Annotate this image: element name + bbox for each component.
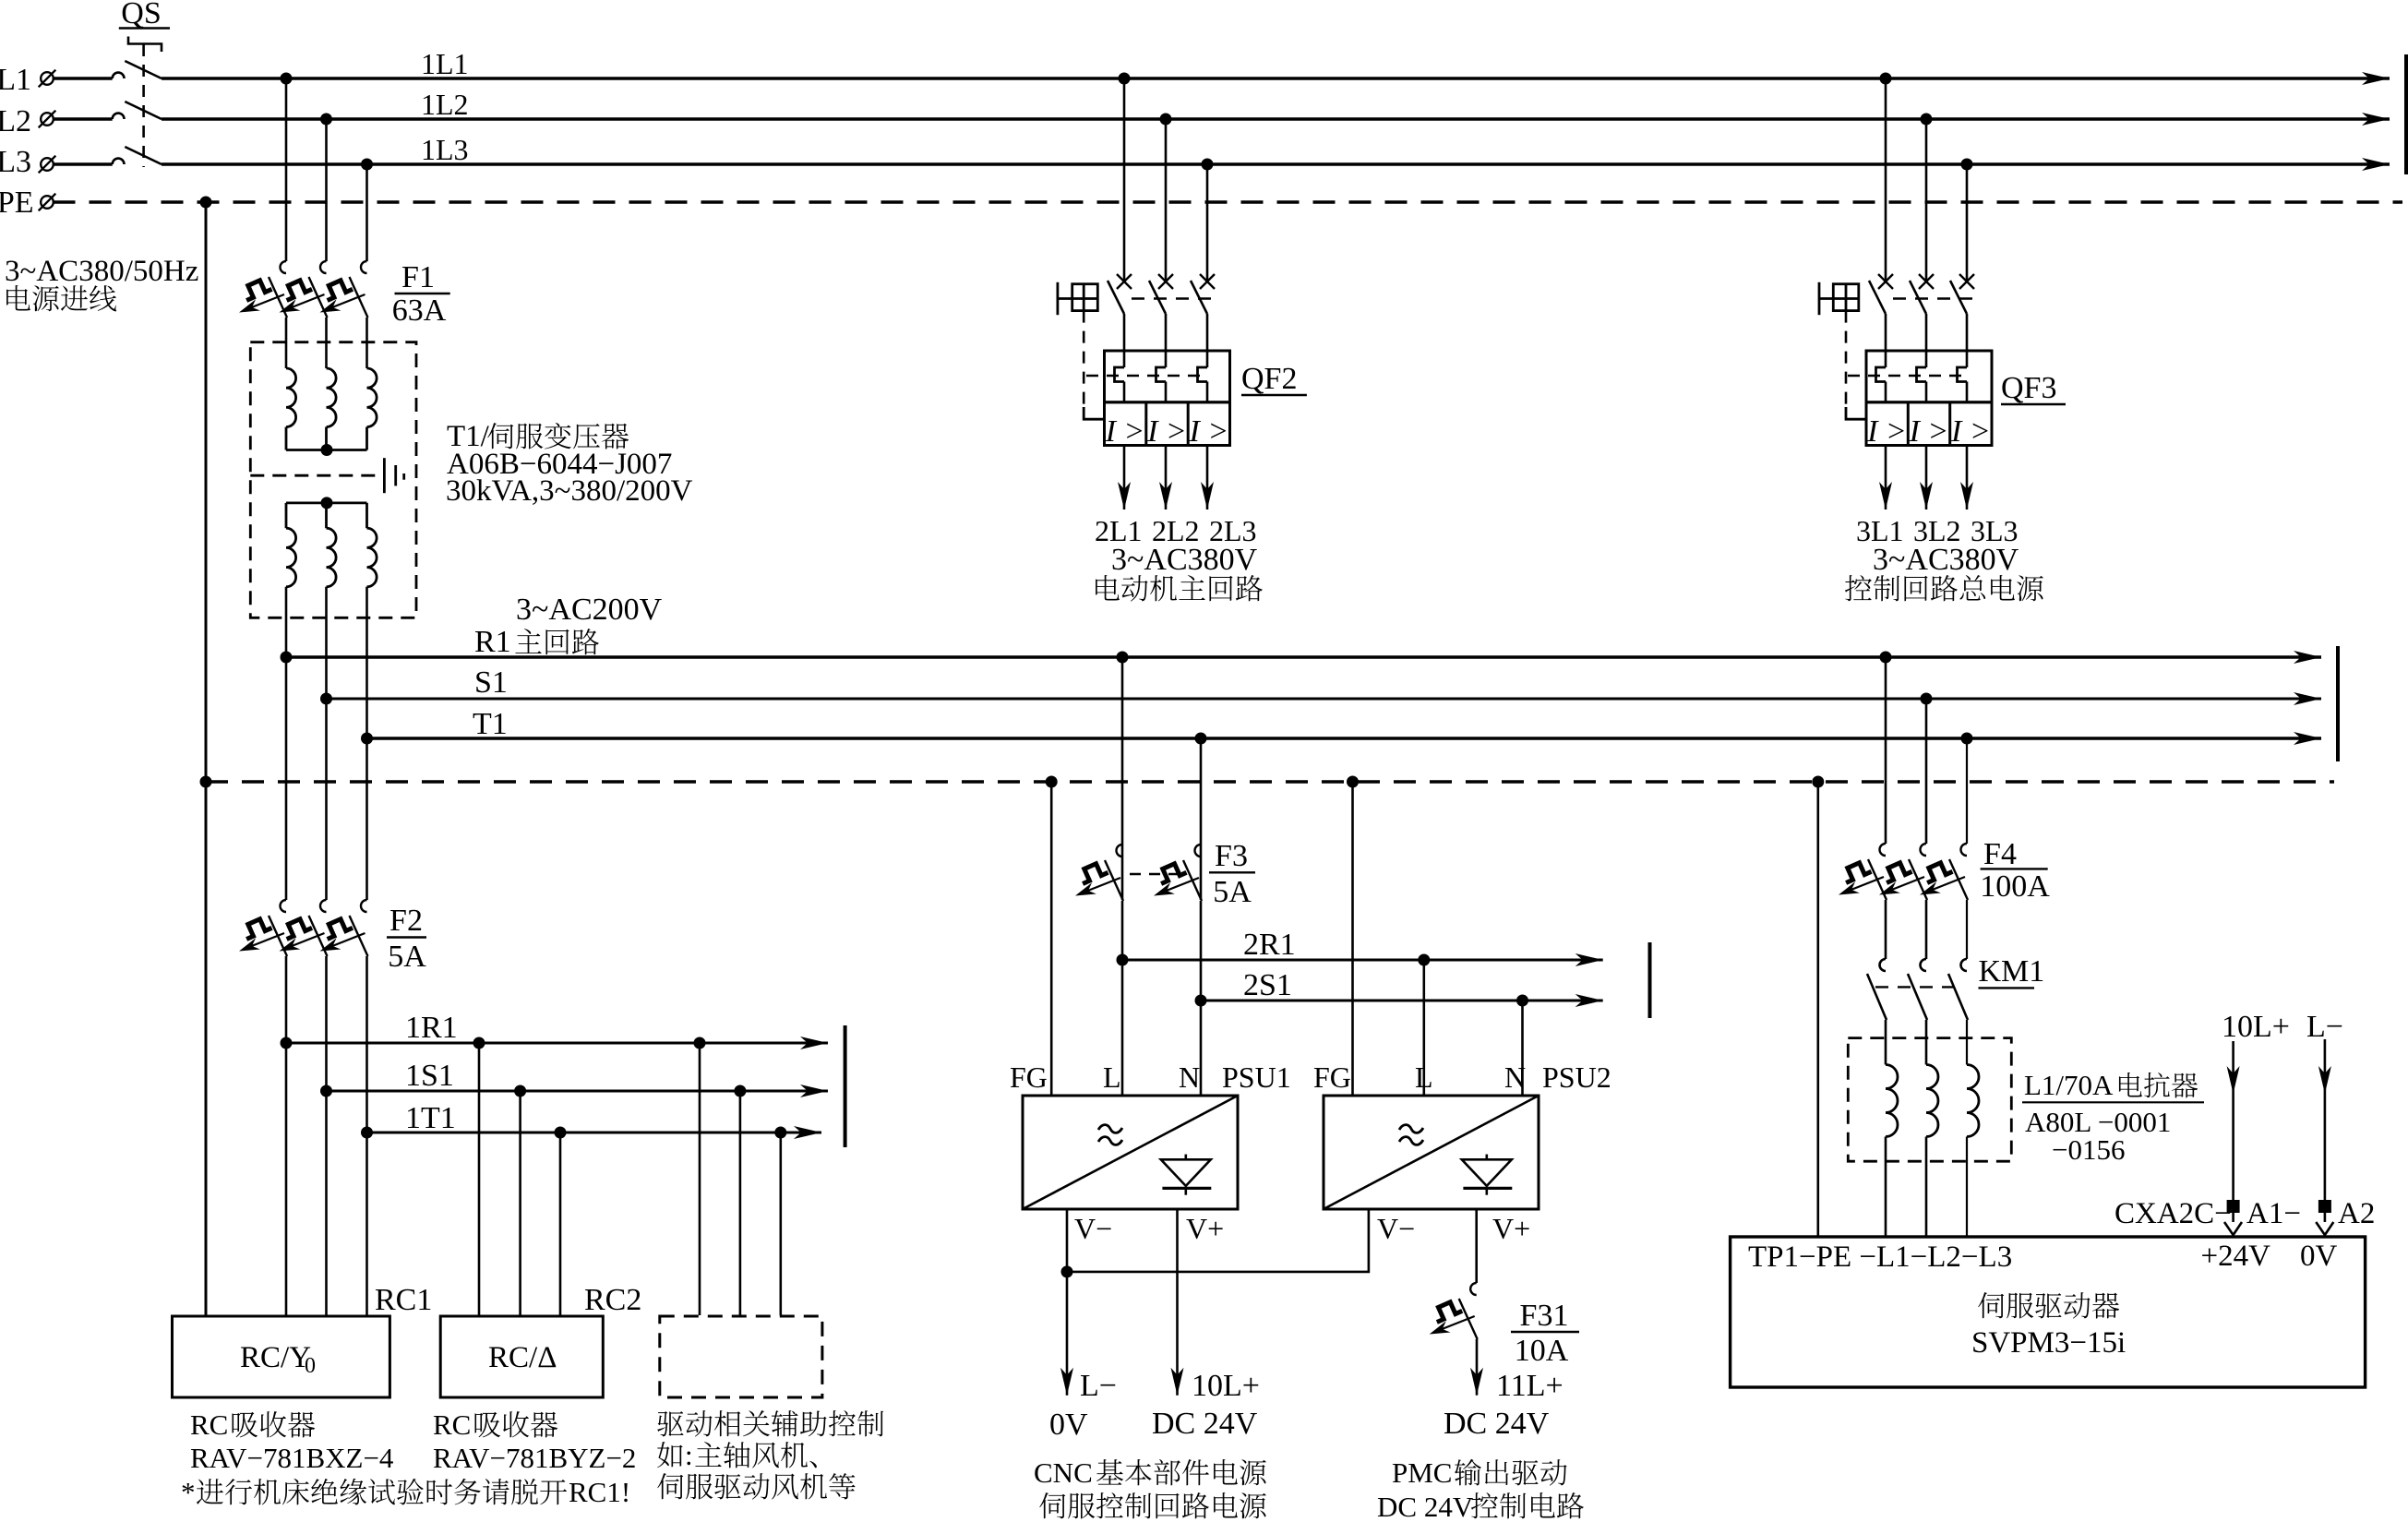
svg-text:DC 24V: DC 24V (1377, 1491, 1474, 1522)
wire L2 to QF2 (1165, 119, 1168, 282)
svg-text:V−: V− (1377, 1212, 1415, 1245)
wire PSU1 V+ output (1176, 1209, 1179, 1396)
node L3/QF3 (1961, 159, 1973, 171)
KM1 linkage (dashed) (1875, 986, 1957, 988)
svg-text:+24V: +24V (2201, 1240, 2271, 1273)
wire L3 to F1 (365, 164, 368, 261)
svg-text:1L2: 1L2 (421, 88, 469, 121)
breaker F3 pole 1 (1075, 845, 1123, 901)
svg-text:F3: F3 (1215, 839, 1248, 873)
arrowheads L1 L2 L3 right ends (2362, 72, 2390, 85)
circuit breaker QF2 pole 3 (1191, 274, 1215, 314)
QF3 box (1866, 351, 1992, 402)
svg-text:RC/Y: RC/Y (240, 1341, 311, 1374)
breaker F4 pole 3 (1920, 844, 1968, 900)
svg-text:FG: FG (1313, 1061, 1351, 1094)
wire S1 bus (327, 698, 2322, 701)
wire QF3 outputs w/ arrows (1885, 446, 1887, 510)
PSU2 diode symbol (1462, 1155, 1513, 1195)
circuit breaker QF3 pole 2 (1910, 274, 1934, 314)
svg-text:3~AC200V: 3~AC200V (516, 593, 663, 627)
wire PSU1 FG (1050, 782, 1053, 1096)
terminal L2 (39, 111, 56, 128)
node V- common (1061, 1265, 1073, 1277)
node PE vertical (200, 197, 212, 209)
svg-text:DC 24V: DC 24V (1444, 1407, 1550, 1441)
breaker F2 pole 1 (239, 900, 287, 956)
QF2 release linkage (dashed) (1086, 375, 1200, 377)
QF3 trip linkage (dashed) (1845, 311, 1848, 407)
node 1S1/RC2 (514, 1085, 526, 1097)
svg-text:SVPM3−15i: SVPM3−15i (1971, 1326, 2126, 1360)
node S1/F4 (1921, 693, 1933, 705)
contactor KM1 pole 2 (1908, 959, 1927, 1020)
T1 secondary star bar (286, 502, 367, 505)
T1 primary winding 3 (367, 368, 377, 427)
wire servo PE drop (1817, 782, 1820, 1237)
circuit breaker QF3 pole 3 (1950, 274, 1974, 314)
node L1/QF2 (1119, 73, 1131, 85)
RC absorber RC/Y0 box (173, 1316, 390, 1397)
reactor winding 3 (1967, 1065, 1979, 1137)
wire PSU2 N (1521, 1001, 1524, 1096)
breaker F4 pole 2 (1879, 844, 1927, 900)
svg-text:5A: 5A (1213, 875, 1252, 909)
T1 secondary winding 3 (367, 528, 377, 587)
wire R1 to F4 (1885, 657, 1887, 844)
wire PSU2 V+ to F31 (1475, 1209, 1478, 1283)
breaker F2 pole 3 (320, 900, 368, 956)
svg-text:RC: RC (190, 1408, 228, 1441)
node L1/QF3 (1880, 73, 1892, 85)
QF2 pole linkage (dashed) (1132, 297, 1215, 300)
wire L2 to F1 (325, 119, 328, 261)
wire L- to CXA2C A2 (2324, 1039, 2327, 1200)
svg-text:1L3: 1L3 (421, 133, 469, 166)
reactor winding 1 (1886, 1065, 1898, 1137)
svg-text:5A: 5A (388, 940, 426, 974)
QF2 box (1105, 351, 1230, 402)
node L3/F1 (361, 159, 373, 171)
wire PSU2 L (1423, 960, 1426, 1096)
wire 1R1 bus (286, 1042, 828, 1045)
svg-text:3~AC380V: 3~AC380V (1873, 543, 2019, 577)
breaker F1 pole 2 (280, 261, 328, 318)
svg-text:*: * (181, 1476, 196, 1508)
disconnect switch QS pole 3 (113, 147, 162, 164)
breaker F1 pole 3 (320, 261, 368, 318)
RC absorber RC/Δ box (440, 1316, 603, 1397)
node 1S1/aux (734, 1085, 746, 1097)
svg-text:63A: 63A (392, 294, 447, 328)
svg-text:F1: F1 (401, 260, 435, 294)
label 如:主轴风机、 (657, 1442, 683, 1468)
node L3/QF2 (1202, 159, 1214, 171)
svg-text:PE: PE (0, 186, 34, 220)
wire 1S1 drop to aux (739, 1091, 742, 1315)
node servo PE tap (1812, 776, 1824, 788)
wire 1S1 drop to RC2 (519, 1091, 521, 1315)
wire L2 to QF3 (1925, 119, 1928, 282)
node L2/QF3 (1921, 114, 1933, 126)
svg-text:−0156: −0156 (2052, 1133, 2125, 1166)
reactor L1/70A enclosure (dashed) (1848, 1038, 2011, 1162)
svg-text:10A: 10A (1515, 1334, 1569, 1368)
wire S1 to F4 (1925, 699, 1928, 844)
wire PSU1 V- output (1066, 1209, 1069, 1396)
aux control box (dashed) (660, 1316, 822, 1397)
breaker F4 pole 1 (1839, 844, 1887, 900)
wire L3 to QF2 (1206, 164, 1209, 282)
wire F1 to T1 primary (285, 318, 288, 368)
wire PE bus (dashed) (54, 200, 2403, 203)
svg-text:10L+: 10L+ (2222, 1010, 2290, 1044)
QF3 thermal releases (1876, 367, 1887, 382)
wire 1R1 drop to RC2 (478, 1043, 481, 1315)
svg-text:2S1: 2S1 (1243, 968, 1292, 1002)
terminal PE (39, 194, 56, 211)
reactor winding 2 (1926, 1065, 1938, 1137)
svg-text:I >: I > (1866, 414, 1907, 449)
wire L1 to QF2 (1123, 78, 1126, 282)
svg-text::: : (685, 1439, 693, 1471)
contactor KM1 pole 3 (1948, 959, 1968, 1020)
node T1/F3 (1195, 733, 1207, 745)
node S1 start (320, 693, 332, 705)
svg-text:L3: L3 (0, 145, 31, 179)
breaker F31 (1430, 1283, 1478, 1339)
node L1/F1 (281, 73, 293, 85)
wire reactor to servo (1885, 1137, 1887, 1238)
svg-text:V+: V+ (1186, 1212, 1224, 1245)
svg-text:QF3: QF3 (2001, 371, 2056, 405)
svg-text:TP1−PE −L1−L2−L3: TP1−PE −L1−L2−L3 (1748, 1240, 2012, 1274)
T1 primary star bar (285, 427, 288, 450)
wire PE vertical (205, 202, 208, 1315)
svg-text:F31: F31 (1520, 1299, 1569, 1333)
node 1R1 start (281, 1037, 293, 1049)
wire 1T1 drop to RC2 (559, 1133, 562, 1315)
svg-text:0: 0 (305, 1354, 316, 1378)
node 1T1/aux (774, 1127, 786, 1139)
QS actuator (128, 37, 162, 53)
label 驱动相关辅助控制 (657, 1410, 883, 1436)
svg-text:QF2: QF2 (1241, 362, 1297, 396)
node T1/F4 (1961, 733, 1973, 745)
svg-text:F4: F4 (1983, 837, 2017, 871)
node 2R1/PSU2 L (1418, 954, 1430, 966)
label 伺服驱动风机等 (657, 1473, 855, 1500)
node 2R1 start (1117, 954, 1129, 966)
wire 10L+ to CXA2C A1 (2232, 1041, 2234, 1200)
svg-text:1T1: 1T1 (405, 1101, 456, 1135)
T1 secondary winding 2 (327, 528, 337, 587)
svg-text:100A: 100A (1980, 869, 2050, 904)
wire QF2 outputs w/ arrows (1123, 446, 1126, 510)
node 2S1/PSU2 N (1516, 995, 1528, 1007)
node T1 secondary star point (321, 497, 333, 509)
wire 1T1 bus (367, 1132, 822, 1134)
wire R1 to F3 pole1 (1121, 657, 1124, 900)
svg-text:N: N (1504, 1061, 1526, 1094)
T1 primary winding 1 (286, 368, 296, 427)
svg-text:I >: I > (1105, 414, 1145, 449)
svg-text:RAV−781BXZ−4: RAV−781BXZ−4 (190, 1442, 394, 1474)
wire L1 to F1 (285, 78, 288, 261)
svg-text:N: N (1179, 1061, 1200, 1094)
T1 primary winding 2 (327, 368, 337, 427)
svg-text:3~AC380V: 3~AC380V (1111, 543, 1258, 577)
PSU2 AC symbol (1399, 1125, 1423, 1145)
circuit breaker QF2 pole 2 (1149, 274, 1173, 314)
svg-text:DC 24V: DC 24V (1152, 1407, 1258, 1441)
QF3 release linkage (dashed) (1848, 375, 1961, 377)
svg-text:PMC: PMC (1392, 1456, 1452, 1489)
wire T1 to F4 (1966, 738, 1968, 844)
QF2 operator (1057, 282, 1060, 315)
node T1 start (361, 733, 373, 745)
QS linkage (dashed) (142, 44, 145, 167)
terminal bar 1R1/1S1/1T1 (844, 1025, 847, 1147)
wire V- link to PSU2 (1067, 1209, 1369, 1272)
label 控制回路总电源 (1845, 575, 2043, 601)
svg-text:RC2: RC2 (584, 1283, 641, 1317)
power supply PSU1 box (1023, 1096, 1238, 1209)
svg-text:L2: L2 (0, 104, 31, 138)
wire F4 to KM1 (1885, 900, 1887, 959)
svg-text:L−: L− (2306, 1010, 2343, 1044)
svg-text:RAV−781BYZ−2: RAV−781BYZ−2 (433, 1442, 636, 1474)
svg-text:KM1: KM1 (1979, 954, 2045, 989)
svg-text:RC1: RC1 (375, 1283, 432, 1317)
label 伺服控制回路电源 (1039, 1492, 1266, 1518)
node PSU2 FG tap (1347, 776, 1359, 788)
node T1 primary star point (321, 444, 333, 456)
svg-text:I >: I > (1950, 414, 1991, 449)
wire PSU2 FG (1351, 782, 1354, 1096)
wire 1T1 drop to aux (779, 1133, 782, 1315)
breaker F2 pole 2 (280, 900, 328, 956)
wire QF2 poles to box (1123, 314, 1126, 367)
wire R1 bus (286, 655, 2321, 658)
svg-text:RC/Δ: RC/Δ (488, 1341, 557, 1374)
wire T1 bus (367, 737, 2322, 739)
svg-text:S1: S1 (474, 665, 508, 700)
svg-text:11L+: 11L+ (1496, 1369, 1563, 1403)
node 2S1 start (1195, 995, 1207, 1007)
svg-text:R1: R1 (474, 625, 511, 659)
terminal L3 (39, 156, 56, 174)
svg-text:L1/70A: L1/70A (2024, 1069, 2114, 1101)
QF3 pole linkage (dashed) (1893, 297, 1974, 300)
wire F3 pole1 to PSU1 L (1121, 901, 1124, 1096)
wire F31 output (1476, 1339, 1479, 1396)
wire F3 pole2 to PSU1 N (1200, 901, 1203, 1096)
node PSU1 FG tap (1046, 776, 1058, 788)
svg-text:10L+: 10L+ (1192, 1369, 1260, 1403)
node 1T1/RC2 (555, 1127, 567, 1139)
svg-text:1R1: 1R1 (405, 1011, 458, 1045)
F3 linkage (dashed) (1130, 873, 1184, 875)
terminal bar top right (2404, 54, 2408, 174)
svg-text:A1−: A1− (2246, 1197, 2301, 1230)
PSU1 diode symbol (1161, 1155, 1212, 1195)
PSU1 AC symbol (1098, 1125, 1122, 1145)
QF2 thermal releases (1115, 367, 1125, 382)
wire 0V/PE distribution (dashed) (206, 780, 2334, 783)
terminal bar 2R1/2S1 (1648, 942, 1652, 1018)
wire T1 to F3 pole2 (1200, 738, 1203, 900)
disconnect switch QS pole 1 (113, 61, 162, 78)
svg-text:30kVA,3~380/200V: 30kVA,3~380/200V (446, 474, 693, 508)
node PE drop (200, 776, 212, 788)
svg-text:0V: 0V (2300, 1240, 2338, 1273)
label 电动机主回路 (1096, 575, 1263, 602)
svg-text:V+: V+ (1492, 1212, 1530, 1245)
terminal L1 (39, 70, 56, 88)
svg-text:PSU1: PSU1 (1222, 1061, 1291, 1094)
svg-text:V−: V− (1074, 1212, 1112, 1245)
node 1R1/RC2 (473, 1037, 485, 1049)
svg-text:A2: A2 (2338, 1197, 2375, 1230)
svg-text:QS: QS (121, 0, 161, 30)
QF3 operator (1818, 282, 1821, 315)
contactor KM1 pole 1 (1867, 959, 1887, 1020)
node 1R1/aux (694, 1037, 706, 1049)
circuit breaker QF3 pole 1 (1869, 274, 1893, 314)
svg-text:FG: FG (1010, 1061, 1048, 1094)
wire L3 phase bus (54, 162, 113, 165)
svg-text:0V: 0V (1049, 1408, 1088, 1442)
transformer T1 enclosure (dashed) (250, 342, 416, 618)
label 伺服驱动器 (1978, 1292, 2119, 1318)
servo drive box (1731, 1237, 2366, 1387)
svg-text:RC1!: RC1! (569, 1476, 630, 1508)
svg-text:3~AC380/50Hz: 3~AC380/50Hz (5, 255, 198, 288)
svg-text:I >: I > (1146, 414, 1187, 449)
T1 secondary winding 1 (286, 528, 296, 587)
wire L3 to QF3 (1966, 164, 1969, 282)
wire 2S1 bus (1201, 1000, 1603, 1002)
svg-text:PSU2: PSU2 (1542, 1061, 1611, 1094)
circuit breaker QF2 pole 1 (1108, 274, 1132, 314)
svg-text:1L1: 1L1 (421, 47, 469, 80)
wire F2 down to RC/Y0 (285, 956, 288, 1315)
disconnect switch QS pole 2 (113, 102, 162, 119)
wire QF3 poles to box (1885, 314, 1887, 367)
terminal bar R1/S1/T1 right (2336, 646, 2340, 761)
node 1S1 start (320, 1085, 332, 1097)
wire L2 phase bus (54, 117, 113, 120)
svg-text:L1: L1 (0, 63, 31, 97)
wire KM1 to reactor (1885, 1020, 1887, 1065)
wire L1 to QF3 (1885, 78, 1887, 282)
wire 2R1 bus (1122, 959, 1603, 962)
node L2/F1 (320, 114, 332, 126)
node R1/F4 (1880, 652, 1892, 664)
breaker F3 pole 2 (1154, 845, 1202, 901)
breaker F1 pole 1 (239, 261, 287, 318)
svg-text:RC: RC (433, 1408, 471, 1441)
wire 1S1 bus (327, 1090, 829, 1093)
power supply PSU2 box (1324, 1096, 1539, 1209)
node R1 start (281, 652, 293, 664)
svg-text:L−: L− (1080, 1369, 1117, 1403)
svg-text:1S1: 1S1 (405, 1059, 454, 1093)
wire 1R1 drop to aux (699, 1043, 701, 1315)
node L2/QF2 (1160, 114, 1172, 126)
wire T1 secondary down (285, 587, 288, 900)
svg-text:2R1: 2R1 (1243, 928, 1296, 962)
svg-text:L: L (1415, 1061, 1433, 1094)
svg-text:CNC: CNC (1034, 1456, 1093, 1489)
svg-text:T1: T1 (473, 707, 508, 741)
svg-text:CXA2C−: CXA2C− (2114, 1197, 2232, 1230)
svg-text:I >: I > (1909, 414, 1949, 449)
wire L1 phase bus (54, 77, 113, 79)
svg-text:I >: I > (1189, 414, 1229, 449)
node 1T1 start (361, 1127, 373, 1139)
T1 screen ground (250, 474, 377, 477)
node R1/F3 (1117, 652, 1129, 664)
svg-text:F2: F2 (389, 904, 423, 938)
QF2 trip linkage (dashed) (1083, 311, 1085, 407)
svg-text:L: L (1103, 1061, 1121, 1094)
